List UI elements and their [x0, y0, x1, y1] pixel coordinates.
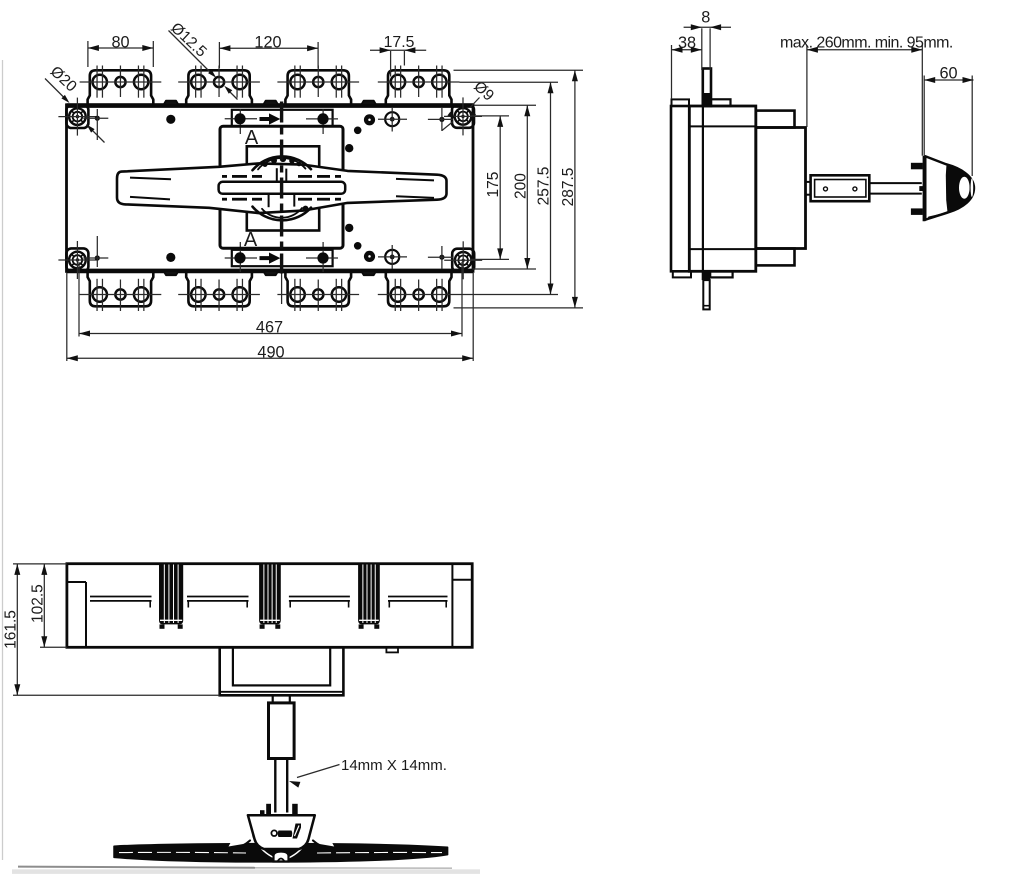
dimension 467: [78, 262, 80, 337]
callout Ø20 corner hole: [45, 79, 66, 100]
dimension 17.5: [390, 51, 392, 77]
bell foot arch: [274, 852, 289, 862]
svg-text:38: 38: [678, 34, 696, 52]
bottom view: terminal shelf bar: [90, 596, 152, 598]
side view: shaft stub to coupling: [806, 181, 811, 183]
bottom view: base body: [67, 564, 472, 648]
side view: right section upper tab: [756, 111, 795, 128]
callout Ø9 corner hole: [470, 98, 480, 108]
lever inner edge lines: [130, 178, 171, 180]
section indicator bar bottom (A-A cut): [232, 250, 333, 266]
side view: extension shaft: [869, 182, 922, 184]
svg-text:287.5: 287.5: [560, 168, 577, 207]
hidden dash lines through hub: [222, 175, 227, 178]
bottom view: pedestal stub: [272, 695, 274, 703]
dimension max 260 min 95 handle depth: [806, 45, 808, 127]
mounting hole pad top-right (Ø9): [452, 105, 474, 128]
bottom view: pedestal: [220, 647, 344, 695]
svg-text:120: 120: [254, 33, 281, 51]
terminal block bottom 1: [88, 273, 154, 307]
svg-text:17.5: 17.5: [384, 34, 415, 51]
mounting hole pad bottom-right: [452, 249, 474, 272]
side view: handle base nub: [919, 186, 923, 191]
terminal block top 1: [88, 70, 154, 104]
section indicator bar top (A-A cut): [232, 110, 333, 126]
svg-text:102.5: 102.5: [29, 584, 46, 623]
side view: bottom shaft stub: [703, 280, 709, 309]
side view: top shaft stub: [703, 69, 711, 107]
dimension 8 shaft width: [701, 28, 703, 70]
terminal block bottom 2: [186, 273, 252, 307]
side view: left flange top tab: [672, 99, 690, 106]
mounting bumps on body edges: [164, 101, 179, 105]
small screw top-right of mechanism: [385, 112, 399, 126]
terminal block top 2: [186, 70, 252, 104]
svg-text:max. 260mm. min. 95mm.: max. 260mm. min. 95mm.: [780, 35, 953, 52]
section cut centreline A-A: [280, 102, 283, 274]
side view: handle grip bottom rim: [929, 211, 952, 218]
dimension 161.5 overall height: [13, 563, 67, 565]
dimension 38: [671, 45, 673, 99]
hub arc bottom: [253, 207, 312, 221]
side view: left flange bottom tab: [673, 271, 691, 277]
svg-text:200: 200: [513, 173, 530, 199]
dimension 257.5 vertical: [460, 81, 559, 83]
handle bell white surround: [229, 814, 255, 847]
side view: bottom shaft root: [702, 271, 711, 280]
bell skirt arcs: [254, 836, 276, 859]
mounting hole pad bottom-left: [66, 248, 88, 271]
mechanism inner housing: [247, 146, 319, 230]
side view: handle base plate: [923, 156, 926, 222]
mechanism outer housing: [220, 126, 343, 248]
bottom view: handle mount bell: [248, 815, 315, 849]
bottom view: fuse contact 1 (hatched): [159, 564, 183, 625]
svg-text:467: 467: [256, 319, 283, 337]
front view: switch-disconnector body outline: [67, 105, 474, 272]
terminal block bottom 3: [285, 273, 351, 307]
rivets on body face: [166, 115, 175, 124]
hub arc top: [253, 156, 312, 170]
side view: handle grip black dome: [946, 164, 974, 212]
dimension 80 terminal width: [87, 41, 89, 67]
terminal block top 4: [386, 70, 452, 104]
terminal block top 3: [285, 70, 351, 104]
svg-text:8: 8: [701, 8, 710, 26]
svg-text:161.5: 161.5: [2, 610, 19, 649]
bell inner details: [271, 830, 277, 836]
lever centre bar: [219, 182, 346, 194]
small pilot holes near corner pads: [95, 116, 100, 121]
mounting hole pad top-left (Ø20): [66, 105, 88, 128]
bottom view: fuse contact 2 (hatched): [259, 564, 281, 625]
side view: top mounting tab: [711, 99, 731, 106]
bottom view: right inner step: [451, 564, 453, 648]
side view: right section lower tab: [756, 249, 795, 266]
dimension 287.5 vertical overall: [454, 69, 584, 71]
svg-text:80: 80: [111, 33, 129, 51]
dimension 60 handle width: [923, 76, 925, 156]
svg-text:490: 490: [257, 343, 284, 361]
terminal block bottom 4: [386, 273, 452, 307]
dimension 175 vertical: [470, 115, 509, 117]
svg-text:60: 60: [939, 64, 957, 82]
side view: bottom mounting tab: [710, 271, 732, 277]
bottom view: square shaft 14x14: [274, 759, 276, 813]
svg-text:257.5: 257.5: [536, 167, 553, 206]
side view: handle grip outline: [925, 156, 974, 220]
svg-text:14mm X 14mm.: 14mm X 14mm.: [341, 757, 447, 774]
side view: left flange column: [671, 106, 689, 271]
scan edge artifact left: [2, 60, 4, 860]
operating lever (handle) outline: [117, 163, 447, 213]
bell top pins: [266, 804, 271, 815]
small screw bottom-right of mechanism: [385, 250, 399, 264]
bottom view: fuse contact 3 (hatched): [358, 564, 380, 625]
side view: coupling block: [811, 175, 870, 201]
side view: handle base tabs: [911, 163, 923, 170]
dimension 200 vertical: [474, 104, 536, 106]
svg-text:175: 175: [485, 172, 502, 198]
hub stems: [276, 168, 278, 182]
shadow under handle: [18, 867, 255, 868]
bottom view: small tab under body: [386, 647, 398, 652]
bottom view: left inner step: [67, 581, 86, 583]
bottom view: handle lever (black bar): [114, 844, 448, 862]
side view: main body: [689, 106, 756, 271]
side view: right body section: [756, 128, 806, 249]
side view: body horizontal step lines: [689, 125, 756, 127]
dimension 490 overall width: [66, 273, 68, 361]
dimension 102.5 body height: [40, 646, 67, 648]
dimension 120 pole pitch: [218, 42, 220, 68]
bottom view: shaft coupler: [269, 703, 295, 759]
side view: body inner vertical edge: [702, 106, 704, 271]
hub detail dots: [263, 162, 268, 167]
callout Ø12.5 terminal hole: [169, 31, 213, 75]
